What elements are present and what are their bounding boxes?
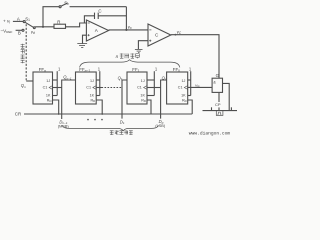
- FFn-1 C1 stub: [96, 87, 101, 89]
- FFn C1 wire from Qn-1: [53, 87, 62, 89]
- svg-text:1: 1: [98, 67, 101, 72]
- switch S2 arm: [61, 3, 68, 6]
- flip-flop FF0 box: [167, 72, 188, 104]
- wire A contact: [13, 20, 23, 22]
- svg-text:S2: S2: [64, 0, 69, 6]
- svg-text:S1: S1: [25, 16, 30, 22]
- ground opamp A: [77, 44, 87, 48]
- svg-text:vC: vC: [177, 29, 182, 35]
- svg-text:FFn−1: FFn−1: [79, 67, 90, 73]
- FFn tie 1 vertical: [56, 71, 58, 95]
- FF1 stub 1J: [147, 79, 154, 81]
- CP pulse tick left: [211, 107, 213, 110]
- gate G AND symbol: [213, 80, 216, 85]
- svg-text:CP: CP: [215, 102, 221, 107]
- node +vI input label: [3, 19, 10, 25]
- CP source box: [216, 111, 223, 116]
- svg-text:vG: vG: [195, 82, 200, 88]
- wire Qn control stub: [26, 80, 33, 82]
- capacitor C plates: [94, 13, 96, 19]
- FFn-1 pin 1K: [90, 93, 95, 97]
- node vo label: [128, 24, 132, 30]
- svg-text:Qn−1: Qn−1: [63, 75, 72, 81]
- wire capacitor to vertical: [98, 15, 126, 17]
- switch S1 contact B circle: [22, 29, 24, 31]
- wire R to opamp: [66, 23, 87, 27]
- CP waveform line: [203, 110, 238, 112]
- svg-text:C1: C1: [137, 86, 142, 90]
- op-amp A label: [95, 28, 99, 33]
- flip-flop FF0 label: [173, 67, 180, 73]
- gate G right stub: [223, 83, 230, 110]
- FF0 pin C1: [178, 86, 183, 90]
- clear rail CR: [24, 113, 192, 115]
- FFn stub 1K: [53, 95, 58, 97]
- FFn-1 tie 1 vertical: [99, 71, 101, 95]
- svg-text:n: n: [116, 54, 119, 59]
- ground comparator: [135, 49, 143, 52]
- wire capacitor branch: [84, 16, 94, 23]
- svg-text:Qn: Qn: [21, 83, 26, 89]
- wire vo: [109, 29, 148, 31]
- FFn-1 pin 1J: [90, 79, 94, 83]
- op-amp A plus sign: [88, 34, 90, 36]
- wire vc to gate: [171, 35, 219, 78]
- flip-flop FFn-1 label: [79, 67, 90, 73]
- flip-flop FFn box: [33, 72, 53, 104]
- wire CP drop: [218, 92, 220, 102]
- svg-text:C: C: [98, 9, 101, 14]
- gate G label: [216, 73, 220, 78]
- underbrace digital output: [62, 125, 159, 131]
- op-amp A minus sign: [88, 22, 90, 24]
- node Q0 label: [162, 76, 167, 82]
- comparator plus sign: [149, 40, 151, 42]
- node CR label: [15, 112, 21, 117]
- svg-text:FF0: FF0: [173, 67, 180, 73]
- wire S2 branch right: [70, 6, 127, 8]
- FFn pin 1J: [46, 79, 50, 83]
- switch S1 pivot circle: [33, 27, 35, 29]
- svg-text:RD: RD: [91, 98, 96, 103]
- wire vd: [35, 26, 54, 28]
- label control signal vertical (fake CJK strokes): [21, 44, 25, 63]
- FF0 pin 1K: [181, 93, 186, 97]
- dashed control line: [25, 24, 27, 81]
- svg-text:B: B: [18, 31, 21, 36]
- svg-text:1: 1: [155, 67, 158, 72]
- flip-flop FFn-1 box: [76, 72, 97, 104]
- svg-text:1J: 1J: [182, 79, 186, 83]
- FF1 pin 1K: [140, 93, 145, 97]
- node CP label: [215, 102, 221, 107]
- wire right vertical to vo: [125, 7, 127, 30]
- svg-text:A: A: [17, 17, 20, 22]
- FFn-1 stub 1K: [96, 95, 100, 97]
- node -VREF label: [1, 28, 13, 34]
- flip-flop FF1 box: [127, 72, 147, 104]
- flip-flop FF1 label: [132, 67, 139, 73]
- svg-text:1J: 1J: [90, 79, 94, 83]
- wire B contact: [16, 29, 22, 31]
- svg-text:1J: 1J: [141, 79, 145, 83]
- wire Qn-1 jog: [62, 80, 76, 119]
- CP source pulse mark: [217, 112, 221, 114]
- FF1 tie 1 label: [155, 67, 158, 72]
- label MSB: [58, 125, 69, 129]
- FFn-1 tie 1 label: [98, 67, 101, 72]
- switch S1 contact A circle: [23, 21, 25, 23]
- wire opamp plus to ground: [83, 35, 87, 43]
- gate G box: [212, 78, 222, 92]
- FFn-1 pin RD: [91, 98, 96, 103]
- svg-text:+ vI: + vI: [3, 19, 10, 25]
- svg-text:RD: RD: [47, 98, 52, 103]
- label n-bit counter (fake CJK strokes): [116, 53, 140, 59]
- comparator C: [148, 24, 171, 46]
- ellipsis dots: [87, 119, 103, 121]
- svg-text:1J: 1J: [46, 79, 50, 83]
- node D1 label: [120, 119, 125, 125]
- switch S1 label: [25, 16, 30, 22]
- wire S2 branch left: [43, 7, 59, 27]
- svg-text:www.diangon.com: www.diangon.com: [189, 130, 231, 136]
- FF0 tie 1 label: [189, 67, 192, 72]
- node Qn label: [21, 83, 26, 89]
- FFn clock triangle: [49, 86, 52, 90]
- wire comparator plus to ground: [138, 41, 148, 50]
- FF0 stub 1K: [188, 95, 191, 97]
- FF1 C1 wire from Q0: [147, 87, 161, 89]
- FFn pin RD: [47, 98, 52, 103]
- comparator minus sign: [149, 29, 151, 31]
- overbrace counter: [80, 60, 180, 68]
- FFn stub 1J: [53, 79, 58, 81]
- svg-text:1: 1: [58, 67, 61, 72]
- svg-text:CR: CR: [15, 112, 21, 117]
- flip-flop FFn label: [39, 67, 46, 73]
- FFn R rail dot: [58, 113, 60, 115]
- svg-text:&: &: [213, 80, 216, 85]
- svg-text:C1: C1: [86, 86, 91, 90]
- wire Q0 jog: [161, 80, 167, 119]
- svg-text:FFn: FFn: [39, 67, 46, 73]
- svg-text:C: C: [155, 33, 159, 38]
- FF1 stub R: [147, 100, 151, 114]
- comparator C label: [155, 33, 159, 38]
- svg-text:G: G: [216, 73, 220, 78]
- dashed omitted-stages wire: [102, 87, 123, 89]
- wire gate G output to FF0 C1: [188, 86, 212, 88]
- FF1 tie 1 vertical: [153, 71, 155, 95]
- label LSB: [155, 124, 165, 128]
- FFn stub R: [53, 100, 59, 114]
- FF1 pin RD: [141, 98, 146, 103]
- node D0 label: [159, 119, 164, 125]
- FF1 stub 1K: [147, 95, 154, 97]
- FF1 pin 1J: [141, 79, 145, 83]
- svg-text:A: A: [95, 28, 99, 33]
- node vc label: [177, 29, 182, 35]
- FFn pin 1K: [46, 93, 51, 97]
- svg-text:1K: 1K: [46, 93, 51, 97]
- node B label: [18, 31, 21, 36]
- node Qn-1 label: [63, 75, 72, 81]
- svg-text:FF1: FF1: [132, 67, 139, 73]
- svg-text:C1: C1: [178, 86, 183, 90]
- resistor R: [54, 24, 66, 28]
- node vG label: [195, 82, 200, 88]
- FF0 clock triangle: [184, 86, 187, 90]
- FF0 tie 1 vertical: [190, 71, 192, 95]
- svg-text:RD: RD: [182, 98, 187, 103]
- FFn pin C1: [43, 86, 48, 90]
- FFn-1 pin C1: [86, 86, 91, 90]
- node vd label: [31, 29, 35, 35]
- wire Q1 jog: [122, 80, 127, 119]
- svg-text:1: 1: [189, 67, 192, 72]
- svg-text:R: R: [57, 19, 60, 24]
- svg-text:vo: vo: [128, 24, 132, 30]
- FFn-1 R rail dot: [101, 113, 103, 115]
- node Dn-1 label: [59, 119, 67, 125]
- watermark www.diangon.com: [189, 130, 231, 136]
- svg-text:1K: 1K: [90, 93, 95, 97]
- FFn tie 1 label: [58, 67, 61, 72]
- svg-text:1K: 1K: [140, 93, 145, 97]
- switch S2 contact circle: [59, 6, 61, 8]
- node vo junction dot: [125, 29, 127, 31]
- svg-text:RD: RD: [141, 98, 146, 103]
- FFn-1 stub R: [96, 100, 102, 114]
- svg-text:vd: vd: [31, 29, 35, 35]
- svg-text:C1: C1: [43, 86, 48, 90]
- FF0 stub 1J: [188, 79, 191, 81]
- node vd junction dot: [42, 26, 44, 28]
- FF0 pin 1J: [182, 79, 186, 83]
- FF0 pin RD: [182, 98, 187, 103]
- node A label: [17, 17, 20, 22]
- FF1 clock triangle: [144, 86, 147, 90]
- node Q1 label: [118, 75, 123, 81]
- FFn-1 clock triangle: [93, 86, 96, 90]
- svg-text:Q1: Q1: [118, 75, 123, 81]
- switch S1 arm: [25, 22, 33, 27]
- label digital output (fake CJK strokes): [110, 130, 133, 134]
- svg-text:D1: D1: [120, 119, 125, 125]
- FF1 pin C1: [137, 86, 142, 90]
- svg-text:−VREF: −VREF: [1, 28, 13, 34]
- CP pulse tick right: [230, 107, 232, 110]
- svg-text:1K: 1K: [181, 93, 186, 97]
- switch S2 label: [64, 0, 69, 6]
- capacitor C label: [98, 9, 101, 14]
- FF0 stub R: [188, 100, 193, 114]
- FFn-1 stub 1J: [96, 79, 100, 81]
- node vc dot: [175, 34, 177, 36]
- resistor R label: [57, 19, 60, 24]
- wire CP tick below label: [218, 107, 220, 110]
- op-amp A: [86, 20, 108, 41]
